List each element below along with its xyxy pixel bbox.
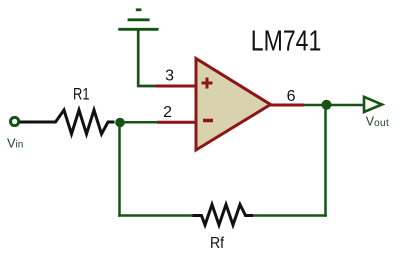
wire pin 6 to Vout (304, 104, 364, 107)
arrow Vout terminal (364, 97, 382, 112)
wire node A down (118, 122, 121, 216)
ground (118, 10, 158, 30)
resistor R1 (20, 110, 115, 134)
wire Rf left lead (118, 214, 193, 217)
svg-text:R1: R1 (73, 86, 90, 104)
node B junction dot (322, 100, 332, 110)
svg-text:Vin: Vin (7, 135, 23, 150)
pin 2 lead of U1 (157, 121, 196, 124)
minus symbol of U1 (203, 119, 213, 123)
node A junction dot (115, 118, 125, 128)
svg-text:Vout: Vout (366, 115, 389, 129)
svg-text:Rf: Rf (210, 235, 224, 252)
svg-text:3: 3 (165, 68, 174, 85)
wire Rf right lead (253, 214, 327, 217)
plus symbol of U1 (202, 78, 213, 89)
svg-text:6: 6 (287, 88, 296, 105)
wire ground stem to pin 3 (138, 29, 157, 86)
wire node B down (324, 105, 327, 217)
wire node A to pin 2 (119, 121, 158, 124)
svg-text:LM741: LM741 (251, 26, 321, 58)
pin 3 lead of U1 (156, 85, 196, 88)
terminal Vin (11, 117, 19, 125)
op-amp U1 (196, 59, 271, 151)
resistor Rf (192, 205, 253, 226)
pin 6 lead of U1 (271, 104, 305, 107)
svg-text:2: 2 (163, 104, 172, 121)
